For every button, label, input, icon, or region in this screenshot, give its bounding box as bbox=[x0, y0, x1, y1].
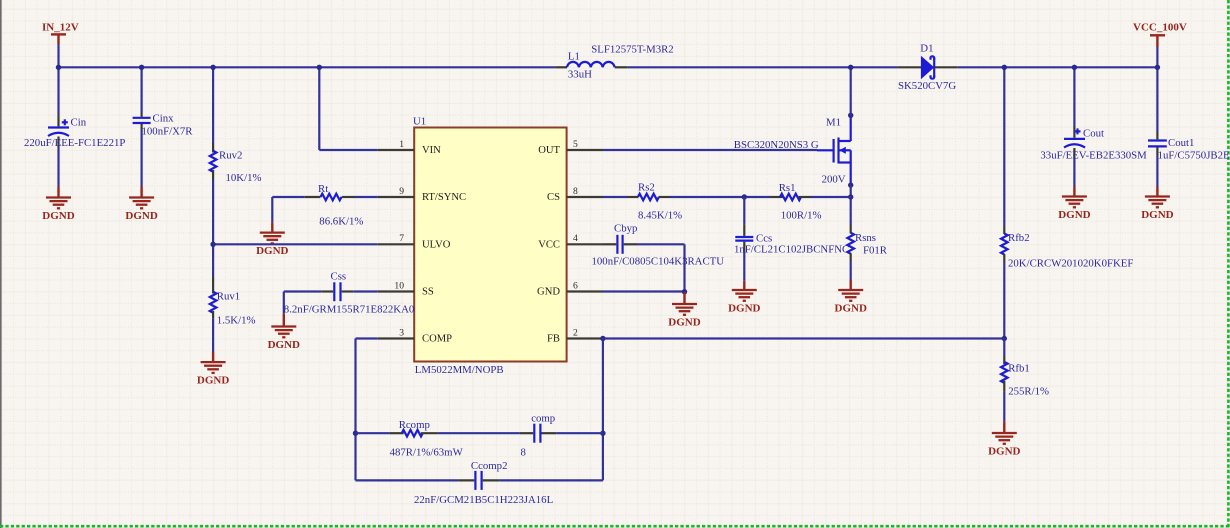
svg-text:22nF/GCM21B5C1H223JA16L: 22nF/GCM21B5C1H223JA16L bbox=[414, 494, 553, 506]
U1 pin 8 CS bbox=[547, 186, 603, 203]
svg-text:VCC: VCC bbox=[538, 239, 560, 250]
svg-text:comp: comp bbox=[531, 413, 555, 425]
svg-text:2: 2 bbox=[573, 327, 578, 338]
svg-text:RT/SYNC: RT/SYNC bbox=[422, 192, 466, 203]
svg-text:DGND: DGND bbox=[197, 374, 229, 386]
wire VCC stem bbox=[1156, 47, 1158, 67]
resistor Rs2 8.45K bbox=[627, 182, 682, 222]
svg-text:M1: M1 bbox=[826, 117, 841, 129]
svg-text:1: 1 bbox=[399, 139, 404, 150]
svg-text:Rs1: Rs1 bbox=[779, 182, 796, 194]
svg-text:Rfb1: Rfb1 bbox=[1008, 363, 1030, 375]
wire comp right vertical bbox=[602, 339, 604, 481]
svg-text:10: 10 bbox=[394, 280, 404, 291]
svg-text:U1: U1 bbox=[413, 116, 426, 128]
svg-text:8: 8 bbox=[521, 446, 526, 458]
svg-text:D1: D1 bbox=[920, 43, 933, 55]
svg-text:F01R: F01R bbox=[863, 245, 888, 257]
ground DGND (Rfb1) bbox=[988, 421, 1020, 457]
junction rail VIN bbox=[317, 65, 322, 70]
inductor L1 bbox=[555, 44, 673, 81]
junction rail Rfb2 bbox=[1002, 65, 1007, 70]
wire Rfb2 branch from rail bbox=[1003, 67, 1005, 226]
svg-text:DGND: DGND bbox=[988, 445, 1020, 457]
svg-text:7: 7 bbox=[399, 233, 404, 244]
junction rail VCC bbox=[1155, 65, 1160, 70]
svg-text:10K/1%: 10K/1% bbox=[226, 172, 262, 184]
svg-text:8.45K/1%: 8.45K/1% bbox=[638, 210, 682, 222]
wire bottom row bbox=[356, 479, 603, 481]
svg-text:3: 3 bbox=[399, 327, 404, 338]
U1 pin 6 GND bbox=[537, 280, 603, 297]
capacitor Cout1 1uF bbox=[1148, 67, 1230, 186]
wire FB row bbox=[603, 337, 1004, 339]
junction Ccs/Rs bbox=[742, 194, 747, 199]
junction FB pin bbox=[600, 336, 605, 341]
svg-text:Rt: Rt bbox=[318, 183, 328, 195]
svg-text:DGND: DGND bbox=[256, 245, 288, 257]
capacitor Cbyp 100nF bbox=[592, 222, 725, 291]
wire M1 drain to rail bbox=[850, 67, 852, 115]
ground DGND (Ruv1) bbox=[197, 352, 229, 387]
junction rail Cout bbox=[1072, 65, 1077, 70]
svg-text:Cout1: Cout1 bbox=[1168, 137, 1194, 149]
svg-text:100nF/C0805C104K3RACTU: 100nF/C0805C104K3RACTU bbox=[592, 256, 725, 268]
svg-text:5: 5 bbox=[573, 139, 578, 150]
ground DGND (Cout) bbox=[1058, 187, 1090, 221]
svg-text:1uF/C5750JB2E: 1uF/C5750JB2E bbox=[1158, 150, 1230, 162]
svg-text:4: 4 bbox=[573, 233, 578, 244]
junction GND pin bbox=[682, 289, 687, 294]
svg-text:GND: GND bbox=[537, 287, 560, 298]
junction ULVO/Ruv bbox=[210, 242, 215, 247]
op-amp/controller U1 LM5022 box bbox=[413, 116, 567, 377]
junction M1 source pin bbox=[848, 182, 853, 187]
ground DGND (Cout1) bbox=[1141, 187, 1173, 221]
svg-text:DGND: DGND bbox=[835, 302, 867, 314]
junction FB/Rfb bbox=[1002, 336, 1007, 341]
svg-text:Css: Css bbox=[331, 271, 347, 283]
resistor Rfb1 255R bbox=[1001, 339, 1049, 422]
wire VIN branch bbox=[319, 67, 377, 150]
svg-text:L1: L1 bbox=[568, 51, 580, 63]
U1 pin 4 VCC bbox=[538, 233, 603, 250]
svg-text:SS: SS bbox=[422, 287, 434, 298]
svg-text:Cinx: Cinx bbox=[153, 113, 175, 125]
svg-text:Cbyp: Cbyp bbox=[614, 222, 637, 234]
capacitor Ccomp2 22nF bbox=[414, 460, 553, 506]
svg-text:SLF12575T-M3R2: SLF12575T-M3R2 bbox=[591, 44, 673, 56]
power port IN_12V bbox=[42, 22, 79, 45]
svg-text:CS: CS bbox=[547, 192, 560, 203]
svg-text:33uH: 33uH bbox=[568, 68, 592, 80]
svg-text:487R/1%/63mW: 487R/1%/63mW bbox=[390, 446, 464, 458]
svg-text:1nF/CL21C102JBCNFNC: 1nF/CL21C102JBCNFNC bbox=[734, 244, 849, 256]
junction comp right bbox=[600, 431, 605, 436]
svg-text:100R/1%: 100R/1% bbox=[781, 210, 822, 222]
svg-text:DGND: DGND bbox=[668, 316, 700, 328]
junction M1 drain pin bbox=[848, 113, 853, 118]
svg-text:DGND: DGND bbox=[42, 210, 74, 222]
svg-text:1.5K/1%: 1.5K/1% bbox=[217, 315, 256, 327]
ground DGND (Ccs) bbox=[728, 281, 760, 315]
svg-text:DGND: DGND bbox=[1058, 209, 1090, 221]
resistor Ruv2 10K bbox=[210, 67, 262, 244]
svg-text:VCC_100V: VCC_100V bbox=[1133, 22, 1187, 34]
diode D1 SK520CV7G bbox=[898, 43, 958, 92]
capacitor Css 8.2nF bbox=[284, 271, 414, 316]
U1 pin 9 RT/SYNC bbox=[378, 186, 466, 203]
resistor Rfb2 20K bbox=[1001, 226, 1133, 339]
U1 pin 3 COMP bbox=[378, 327, 452, 344]
svg-text:IN_12V: IN_12V bbox=[42, 22, 79, 34]
svg-text:Rsns: Rsns bbox=[855, 232, 876, 244]
resistor Ruv1 1.5K bbox=[210, 244, 256, 351]
svg-text:DGND: DGND bbox=[125, 210, 157, 222]
wire IN_12V stem bbox=[57, 44, 59, 67]
svg-text:VIN: VIN bbox=[422, 145, 441, 156]
junction M1 source / Rs1 bbox=[848, 194, 853, 199]
capacitor Cinx 100nF bbox=[133, 67, 194, 186]
wire Rt to ground bbox=[271, 197, 273, 222]
svg-text:OUT: OUT bbox=[538, 145, 560, 156]
ground DGND (U1 GND) bbox=[668, 292, 700, 329]
resistor Rs1 100R bbox=[771, 182, 822, 222]
svg-text:LM5022MM/NOPB: LM5022MM/NOPB bbox=[415, 364, 504, 376]
wire GND pin row bbox=[603, 290, 685, 292]
svg-text:Rfb2: Rfb2 bbox=[1008, 232, 1030, 244]
svg-text:6: 6 bbox=[573, 280, 578, 291]
svg-text:Ruv2: Ruv2 bbox=[219, 150, 242, 162]
svg-text:Ruv1: Ruv1 bbox=[217, 291, 240, 303]
wire top rail middle (L1 to D1) bbox=[627, 66, 897, 68]
capacitor Cin 220uF polarized bbox=[24, 67, 125, 186]
wire top rail right (D1 to VCC) bbox=[957, 66, 1157, 68]
wire CS row bbox=[603, 196, 851, 198]
U1 pin 2 FB bbox=[547, 327, 603, 344]
wire Css to ground bbox=[283, 292, 285, 314]
junction rail IN bbox=[56, 65, 61, 70]
svg-text:9: 9 bbox=[399, 186, 404, 197]
svg-text:Ccomp2: Ccomp2 bbox=[471, 460, 508, 472]
transistor M1 NMOS bbox=[817, 115, 851, 185]
svg-text:255R/1%: 255R/1% bbox=[1008, 386, 1049, 398]
svg-text:86.6K/1%: 86.6K/1% bbox=[319, 216, 363, 228]
svg-text:DGND: DGND bbox=[728, 302, 760, 314]
svg-text:8.2nF/GRM155R71E822KA0: 8.2nF/GRM155R71E822KA0 bbox=[284, 304, 414, 316]
wire top rail left (IN to L1) bbox=[59, 66, 556, 68]
capacitor Ccs 1nF bbox=[734, 197, 849, 281]
ground DGND (Cin) bbox=[42, 187, 74, 222]
ground DGND (Cinx) bbox=[125, 187, 157, 222]
svg-text:33uF/EEV-EB2E330SM: 33uF/EEV-EB2E330SM bbox=[1040, 150, 1147, 162]
svg-text:Rs2: Rs2 bbox=[638, 182, 655, 194]
svg-text:FB: FB bbox=[547, 334, 560, 345]
junction rail Cinx bbox=[139, 65, 144, 70]
svg-text:8: 8 bbox=[573, 186, 578, 197]
ground DGND (Rt) bbox=[256, 222, 288, 257]
ground DGND (Rsns) bbox=[835, 280, 867, 314]
resistor Rt 86.6K bbox=[272, 183, 377, 228]
svg-text:SK520CV7G: SK520CV7G bbox=[898, 80, 956, 92]
wire ULVO row bbox=[213, 243, 378, 245]
svg-text:200V: 200V bbox=[822, 173, 846, 185]
capacitor comp bbox=[520, 413, 603, 459]
U1 pin 7 ULVO bbox=[378, 233, 451, 250]
svg-text:Cin: Cin bbox=[71, 117, 87, 129]
wire COMP branch bbox=[356, 339, 378, 481]
svg-text:DGND: DGND bbox=[268, 339, 300, 351]
U1 pin 5 OUT bbox=[538, 139, 603, 156]
svg-text:Rcomp: Rcomp bbox=[399, 419, 430, 431]
svg-text:100nF/X7R: 100nF/X7R bbox=[142, 126, 194, 138]
svg-text:ULVO: ULVO bbox=[422, 239, 451, 250]
resistor Rcomp 487R bbox=[356, 419, 520, 458]
svg-text:BSC320N20NS3 G: BSC320N20NS3 G bbox=[734, 139, 819, 151]
ground DGND (Css) bbox=[268, 314, 300, 351]
wire M1 source down bbox=[850, 185, 852, 225]
junction rail Ruv2 bbox=[210, 65, 215, 70]
U1 pin 1 VIN bbox=[378, 139, 441, 156]
svg-text:COMP: COMP bbox=[422, 334, 452, 345]
svg-text:DGND: DGND bbox=[1141, 209, 1173, 221]
junction M1 on rail bbox=[848, 65, 853, 70]
svg-text:Cout: Cout bbox=[1083, 128, 1104, 140]
svg-text:220uF/EEE-FC1E221P: 220uF/EEE-FC1E221P bbox=[24, 137, 125, 149]
U1 pin 10 SS bbox=[378, 280, 434, 297]
resistor Rsns F01R bbox=[847, 225, 887, 280]
capacitor Cout 33uF polarized bbox=[1040, 67, 1147, 186]
wire OUT row (gate drive) bbox=[603, 149, 817, 151]
svg-text:20K/CRCW201020K0FKEF: 20K/CRCW201020K0FKEF bbox=[1008, 258, 1133, 270]
junction Rcomp left bbox=[353, 431, 358, 436]
power port VCC_100V bbox=[1133, 22, 1187, 48]
